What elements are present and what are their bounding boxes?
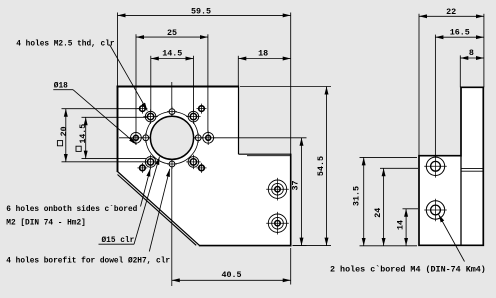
svg-text:54.5: 54.5 (316, 156, 326, 176)
dim sq20 (65, 109, 67, 162)
dim 16.5 extension (434, 35, 436, 157)
dim 59.5/18 extension right (290, 13, 292, 155)
dim 25 extension left (135, 34, 137, 132)
M2 cbored hole mid #2 (203, 132, 214, 143)
svg-text:31.5: 31.5 (352, 186, 362, 206)
dim 54.5 extension top (240, 86, 331, 88)
dim 31.5 extension bottom (360, 245, 418, 247)
dim sq20 extension bottom (62, 161, 148, 163)
dim 14.5 extension left (150, 56, 152, 111)
dowel hole Ø2H7 #3 (143, 135, 149, 141)
dim 24 extension top (380, 167, 418, 169)
dowel hole Ø2H7 #1 (169, 109, 175, 115)
side view outline (419, 87, 483, 245)
dim 59.5 extension left (117, 13, 119, 87)
M2.5 threaded hole #2 (188, 111, 199, 122)
leader 4 holes M2.5 (110, 45, 148, 111)
svg-text:M2 [DIN 74 - Hm2]: M2 [DIN 74 - Hm2] (6, 219, 86, 227)
front view part face (118, 87, 291, 246)
svg-text:14: 14 (395, 220, 405, 230)
dim sq14.5 (85, 117, 87, 158)
part left edge (117, 86, 119, 172)
leader 2 holes M4 (439, 215, 465, 262)
M2.5 threaded hole #1 (145, 111, 156, 122)
dim 22 extension right (483, 14, 485, 88)
M4 cbored hole front #2 (268, 214, 286, 232)
dim 16.5 (435, 36, 484, 38)
dim 25 extension right (207, 34, 209, 132)
svg-text:22: 22 (446, 7, 456, 17)
dim 14.5 extension right (193, 56, 195, 111)
part top edge (117, 86, 240, 88)
M2 cbored hole corner #4 (199, 165, 205, 171)
svg-text:8: 8 (469, 48, 474, 58)
svg-text:Ø15 clr: Ø15 clr (102, 236, 135, 245)
dim sq20 text (57, 126, 69, 145)
dim 37 (301, 138, 303, 246)
dim 8 (460, 57, 484, 59)
dim 18 extension left (237, 56, 239, 87)
dim sq14.5 text (76, 124, 88, 152)
M2 cbored hole corner #1 (140, 106, 146, 112)
dim 14.5 (151, 58, 194, 60)
M4 cbored hole front #1 (268, 180, 286, 198)
svg-text:16.5: 16.5 (450, 28, 470, 38)
dim sq14.5 extension top (82, 116, 149, 118)
svg-text:2 holes c`bored M4 (DIN-74 Km4: 2 holes c`bored M4 (DIN-74 Km4) (330, 265, 486, 275)
dim 18 (238, 58, 290, 60)
dim 25 (136, 36, 208, 38)
dim 40.5 (172, 279, 291, 281)
chamfer outer edge (118, 172, 200, 246)
dim 40.5 extension right (290, 248, 292, 285)
label Ø18 underline (53, 89, 73, 91)
side internal edge 2 (461, 170, 483, 172)
svg-text:37: 37 (291, 180, 301, 190)
dim 24 (383, 168, 385, 246)
notch vertical edge (238, 87, 240, 155)
leader Ø15 (134, 157, 160, 244)
dim 31.5 extension top (360, 156, 418, 158)
leader 4 holes borefit (149, 169, 170, 252)
bolt circle Ø18 (146, 112, 198, 164)
svg-text:25: 25 (167, 28, 177, 38)
side internal vertical edge (460, 156, 462, 246)
horizontal centerline (119, 137, 307, 139)
dim 22 (419, 15, 484, 17)
svg-text:14.5: 14.5 (162, 49, 182, 59)
svg-text:6 holes onboth sides c`bored: 6 holes onboth sides c`bored (6, 206, 137, 214)
M2 cbored hole corner #3 (140, 165, 146, 171)
M2 cbored hole mid #1 (131, 132, 142, 143)
M2 cbored hole corner #2 (199, 106, 205, 112)
dim 8 extension (459, 55, 461, 87)
dim 22 extension left (418, 14, 420, 156)
part bottom edge (199, 245, 292, 247)
notch bottom edge (239, 153, 291, 155)
chamfer inner edge (118, 175, 197, 246)
dowel hole Ø2H7 #2 (169, 161, 175, 167)
dowel hole Ø2H7 #4 (195, 135, 201, 141)
svg-text:18: 18 (258, 49, 268, 59)
svg-text:24: 24 (373, 208, 383, 218)
M2.5 threaded hole #4 (188, 157, 199, 168)
dim 14 extension top (403, 208, 419, 210)
svg-text:4 holes borefit for dowel Ø2H7: 4 holes borefit for dowel Ø2H7, clr (6, 256, 170, 265)
leader Ø18 (73, 90, 137, 145)
vertical centerline / 40.5 extension (171, 82, 173, 286)
M4 cbored hole side #1 (426, 157, 444, 175)
M4 cbored hole side #2 (426, 201, 444, 219)
notch step edge jog (247, 155, 291, 157)
svg-text:14.5: 14.5 (79, 124, 88, 144)
svg-text:40.5: 40.5 (221, 270, 241, 280)
svg-text:59.5: 59.5 (191, 7, 211, 17)
dim 54.5 (326, 87, 328, 246)
side internal edge 1 (461, 168, 483, 170)
svg-text:Ø18: Ø18 (54, 82, 68, 91)
leader 6 holes (141, 169, 151, 207)
label Ø15 underline (99, 243, 135, 245)
part right edge (290, 154, 292, 247)
dim 54.5 extension bottom (293, 245, 332, 247)
dim sq14.5 extension bottom (82, 158, 147, 160)
center hole Ø15 (150, 116, 193, 159)
M2.5 threaded hole #3 (145, 157, 156, 168)
dim 31.5 (363, 157, 365, 245)
svg-text:20: 20 (60, 126, 69, 136)
dim 59.5 (118, 14, 291, 16)
dim 14 (405, 209, 407, 246)
dim sq20 extension top (62, 108, 140, 110)
svg-text:4 holes M2.5 thd, clr: 4 holes M2.5 thd, clr (16, 41, 115, 49)
dim 37 extension bottom (293, 245, 307, 247)
